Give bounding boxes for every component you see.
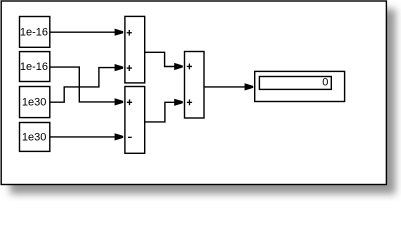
- constant block C4 value 1e30: [20, 123, 50, 152]
- arrowhead into U1 input 1: [115, 29, 124, 36]
- svg-text:1e-16: 1e-16: [20, 26, 48, 38]
- wire C2 to U2 input 1 (jog down): [50, 67, 115, 102]
- arrowhead into U3 input 2: [174, 99, 183, 106]
- svg-text:1e-16: 1e-16: [20, 61, 48, 73]
- wire C1 to U1 input 1: [50, 31, 115, 33]
- arrowhead into U2 input 2: [115, 133, 124, 140]
- wire C3 to U1 input 2 (staircase up): [50, 68, 115, 103]
- arrowhead into U3 input 1: [174, 63, 183, 70]
- sum block U1 (+ +): [125, 16, 145, 83]
- arrowhead into U1 input 2: [115, 64, 124, 71]
- constant block C2 value 1e-16: [20, 52, 50, 82]
- drop shadow of model canvas: [10, 9, 396, 194]
- svg-text:1e30: 1e30: [22, 96, 46, 108]
- arrowhead into display D1: [245, 83, 254, 90]
- sum block U2 (+ -): [125, 87, 145, 154]
- wire U1 output to U3 input 1: [145, 52, 175, 66]
- wire U2 output to U3 input 2: [145, 102, 175, 122]
- constant block C1 value 1e-16: [20, 17, 50, 48]
- arrowhead into U2 input 1: [115, 98, 124, 105]
- constant block C3 value 1e30: [20, 87, 50, 118]
- model canvas white sheet with border: [1, 1, 386, 185]
- sum block U3 (+ +): [185, 52, 205, 119]
- display block D1: [255, 71, 345, 101]
- wire C4 to U2 input 2: [50, 136, 115, 138]
- wire U3 output to display D1: [204, 86, 245, 88]
- svg-text:0: 0: [322, 77, 328, 89]
- svg-text:1e30: 1e30: [22, 131, 46, 143]
